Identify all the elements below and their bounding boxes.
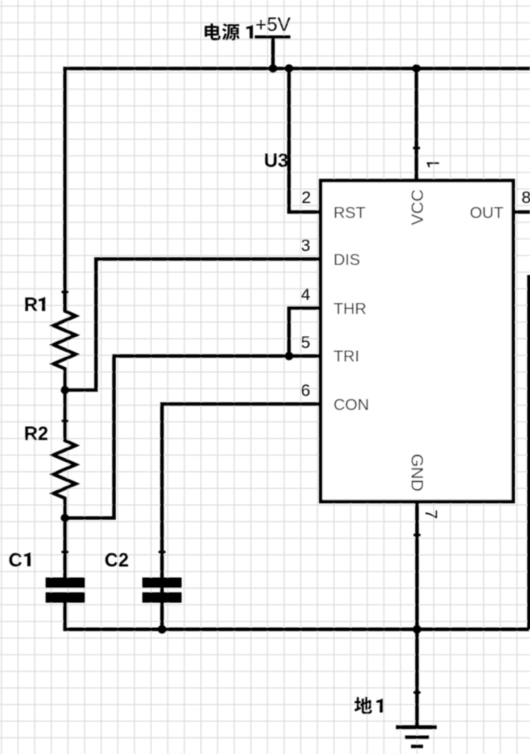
wire top rail (65, 69, 530, 312)
power +5V bar (255, 35, 291, 38)
svg-text:CON: CON (334, 397, 370, 414)
junction power node at top rail (269, 64, 278, 73)
junction R2-C1 node (61, 514, 70, 523)
svg-text:RST: RST (334, 205, 366, 222)
pin end tick VCC pin 1 (413, 147, 420, 149)
svg-text:R2: R2 (24, 424, 48, 445)
svg-text:8: 8 (522, 188, 530, 207)
svg-text:6: 6 (301, 381, 310, 400)
pin end tick R2 top (62, 420, 69, 422)
wire C1 to R2 (63, 518, 67, 578)
resistor R1 (53, 292, 75, 390)
label 电源1 (205, 23, 253, 40)
junction R1-R2 node (61, 386, 70, 395)
wire GND pin 7 (415, 501, 419, 728)
wire THR branch (289, 308, 321, 356)
resistor R2 (53, 390, 75, 518)
junction THR-TRI node (285, 352, 294, 361)
svg-text:7: 7 (422, 510, 441, 519)
wire bottom rail (65, 602, 529, 629)
junction GND on bottom rail (413, 625, 422, 634)
pin end tick R1 top (62, 291, 69, 293)
junction VCC branch on top rail (412, 64, 421, 73)
label R1 (24, 295, 45, 316)
wire CON to C2 (162, 404, 321, 629)
wire DIS jog (65, 259, 321, 390)
svg-text:R: R (24, 295, 38, 316)
svg-text:VCC: VCC (408, 189, 427, 225)
svg-text:3: 3 (301, 236, 310, 255)
svg-text:THR: THR (334, 301, 367, 318)
svg-text:U3: U3 (264, 151, 288, 172)
svg-text:+5V: +5V (255, 14, 290, 36)
svg-text:GND: GND (407, 454, 426, 492)
wire right branch (527, 275, 530, 629)
label 地1 (354, 697, 383, 714)
pin end tick ground symbol (414, 691, 421, 693)
junction C2 on bottom rail (158, 625, 167, 634)
wire VCC pin 1 (415, 69, 419, 181)
wire power stem (271, 37, 275, 69)
svg-text:2: 2 (302, 188, 311, 207)
junction RST branch on top rail (285, 64, 294, 73)
svg-text:4: 4 (301, 285, 310, 304)
op-amp U3 body (555 timer IC) (321, 181, 514, 502)
pin end tick C2 top (159, 551, 166, 553)
pin end tick C1 top (62, 551, 69, 553)
ground symbol (396, 727, 437, 746)
pin end tick GND pin 7 (414, 534, 421, 536)
capacitor C1 (46, 578, 85, 603)
svg-text:5: 5 (301, 333, 310, 352)
pin number 1 rotated (427, 162, 439, 167)
wire OUT pin 8 stub (513, 210, 530, 214)
svg-text:TRI: TRI (334, 349, 360, 366)
wire TRI jog (65, 356, 321, 518)
svg-text:C2: C2 (105, 550, 129, 571)
capacitor C2 (142, 578, 181, 603)
svg-text:DIS: DIS (334, 252, 361, 269)
svg-text:OUT: OUT (470, 205, 504, 222)
label C1 (9, 550, 31, 571)
wire RST from top rail (289, 69, 321, 213)
svg-text:C: C (9, 550, 23, 571)
